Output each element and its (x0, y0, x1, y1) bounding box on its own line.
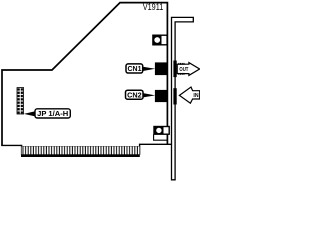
top mounting tab with screw hole (153, 35, 167, 45)
svg-text:CN1: CN1 (128, 66, 142, 73)
card bottom-left edge step (1, 145, 21, 154)
connector CN2 (RCA jack body) (155, 90, 168, 102)
bottom mounting tab with screw hole (154, 127, 169, 135)
connector CN2 jack tip through bracket (173, 88, 176, 104)
svg-text:JP 1/A-H: JP 1/A-H (37, 111, 68, 118)
svg-text:V1911: V1911 (143, 2, 164, 12)
svg-text:IN: IN (193, 93, 199, 99)
leader arrow from CN1 label to jack (143, 67, 155, 71)
card bottom-right edge step (140, 144, 172, 155)
IN arrow (signal into CN2) (179, 87, 199, 103)
edge connector fingers (22, 146, 140, 155)
svg-text:CN2: CN2 (127, 92, 142, 99)
label CN2 (126, 90, 144, 99)
jumper block JP1 (2x8 pin header) (17, 88, 24, 114)
label CN1 (126, 64, 143, 73)
edge connector baseline (21, 154, 140, 157)
PCB card outline (2, 3, 167, 146)
label JP1/A-H (35, 109, 70, 118)
svg-text:OUT: OUT (179, 67, 188, 73)
leader arrow from CN2 label to jack (143, 93, 155, 97)
connector CN1 jack tip through bracket (173, 61, 176, 78)
bracket foot notch (154, 134, 168, 140)
OUT arrow (signal out of CN1) (177, 63, 199, 76)
leader arrow from JP1 label to jumper block (24, 111, 35, 116)
connector CN1 (RCA jack body) (155, 62, 168, 75)
metal bracket (172, 17, 194, 179)
